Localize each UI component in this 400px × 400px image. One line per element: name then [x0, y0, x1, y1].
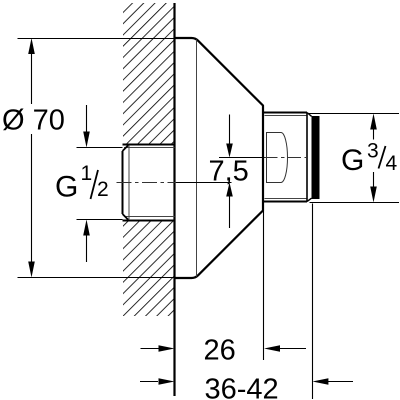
G3/4 nipple thread root bottom: [265, 198, 307, 200]
wall hatch lower: [123, 221, 175, 317]
cone transition line: [196, 40, 198, 277]
dim 7,5 down arrow: [226, 144, 233, 158]
recess dome arc: [281, 133, 288, 183]
dim G3/4 up arrow: [370, 114, 377, 130]
G1/2 axis centerline: [117, 182, 179, 184]
svg-text:G: G: [341, 144, 364, 177]
dim 26 extension line: [263, 211, 265, 361]
dim G1/2 bottom extension line: [77, 219, 123, 221]
dim G3/4 bottom extension line: [310, 202, 400, 204]
G3/4 axis dimension line segment: [219, 157, 265, 159]
svg-text:2: 2: [97, 178, 109, 201]
wall hatch upper: [123, 3, 175, 145]
recess bore bottom line: [266, 182, 281, 184]
G1/2 tail top outer edge: [123, 144, 175, 146]
dim G3/4 down arrow: [370, 187, 377, 203]
svg-text:7,5: 7,5: [209, 156, 249, 188]
G1/2 tail thread root top: [124, 147, 175, 149]
svg-text:4: 4: [386, 152, 398, 175]
svg-text:26: 26: [204, 335, 236, 367]
G1/2 tail bottom chamfer: [123, 214, 130, 221]
dim 7,5 up arrow: [226, 183, 233, 197]
G3/4 nipple thread root top: [265, 115, 307, 117]
G1/2 tail left face: [122, 151, 124, 214]
G3/4 axis centerline: [265, 157, 312, 159]
escutcheon cone outline: [175, 38, 264, 278]
dim G1/2 bottom arrow: [83, 220, 90, 236]
G1/2 axis dimension line segment: [176, 182, 232, 184]
dim 36-42 extension line: [312, 204, 314, 400]
dim G3/4 top extension line: [308, 113, 399, 115]
G3/4 nipple end face: [306, 113, 308, 202]
G1/2 tail bottom outer edge: [123, 220, 175, 222]
G1/2 tail top chamfer: [123, 145, 130, 152]
G1/2 tail thread root bottom: [124, 216, 175, 218]
wall face line: [173, 3, 175, 396]
dim Ø70 top extension line: [18, 38, 194, 40]
svg-text:36-42: 36-42: [205, 374, 279, 400]
dim G1/2 top arrow: [83, 132, 90, 148]
dim Ø70 bottom extension line: [18, 277, 194, 279]
gasket black band: [312, 116, 320, 199]
recess bore top line: [266, 132, 281, 134]
dim Ø70 top arrow: [28, 38, 35, 54]
G3/4 nipple outer bottom: [264, 201, 307, 203]
svg-text:Ø 70: Ø 70: [2, 105, 65, 137]
G3/4 nipple end chamfer bottom: [307, 198, 312, 201]
svg-text:1: 1: [81, 162, 93, 185]
dim G1/2 top extension line: [77, 147, 123, 149]
dim 26 left arrow: [141, 348, 159, 350]
svg-text:3: 3: [367, 140, 379, 163]
G3/4 nipple end chamfer top: [307, 113, 312, 117]
dim 36-42 right arrow: [312, 378, 328, 385]
dim 26 right arrow: [264, 345, 280, 352]
dim 36-42 left arrow: [140, 381, 158, 383]
dim Ø70 bottom arrow: [28, 262, 35, 278]
recess bore left edge: [266, 133, 268, 183]
svg-text:G: G: [55, 171, 78, 204]
G3/4 nipple outer top: [264, 112, 307, 114]
G1/2 tail chamfer edge: [128, 145, 130, 220]
